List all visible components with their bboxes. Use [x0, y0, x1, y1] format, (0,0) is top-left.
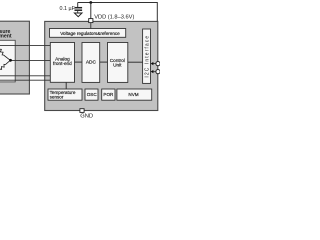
svg-text:I2C Interface: I2C Interface: [145, 35, 151, 78]
svg-text:GND: GND: [80, 113, 93, 119]
pin SDA pad circle: [156, 70, 160, 74]
svg-text:OSC: OSC: [87, 92, 98, 97]
resistor R1 (bridge upper zigzag): [0, 49, 4, 56]
capacitor C1 plate bottom: [75, 9, 83, 11]
svg-text:Voltage regulators&reference: Voltage regulators&reference: [60, 31, 120, 36]
control unit box: [108, 43, 128, 83]
POR box: [102, 89, 115, 100]
wire AFE to temperature sensor: [65, 82, 67, 89]
pin GND square: [80, 109, 84, 113]
wire bridge low2 to AFE: [0, 79, 51, 81]
pin SDA wire: [153, 71, 156, 73]
wire control unit to I2C: [128, 61, 143, 63]
background: [0, 0, 160, 120]
capacitor C1 lead top: [77, 3, 79, 8]
wire VDD pin to regulator: [90, 23, 92, 29]
svg-text:element: element: [0, 33, 12, 39]
wire bridge low1 to AFE: [0, 75, 51, 77]
capacitor C1 plate top: [75, 7, 83, 9]
voltage regulator box: [50, 29, 126, 38]
temperature sensor box: [48, 89, 82, 100]
pin SDA arrowhead: [151, 70, 154, 73]
wire VDD drop to pin: [90, 3, 92, 20]
wire diamond upper side: [4, 55, 11, 60]
chip gray box U1: [45, 21, 158, 110]
analog front-end box: [50, 43, 74, 83]
pin SCL wire: [153, 63, 156, 65]
wire diamond lower side: [5, 60, 10, 64]
svg-text:VDD (1.8–3.6V): VDD (1.8–3.6V): [94, 15, 134, 21]
NVM box: [117, 89, 152, 100]
wire AFE to ADC: [75, 61, 83, 63]
ADC box: [82, 43, 100, 83]
wire bridge top to AFE: [0, 44, 51, 46]
svg-text:sensor: sensor: [50, 95, 64, 100]
node bridge output junction: [9, 59, 12, 62]
I2C interface box: [143, 29, 151, 83]
svg-text:front-end: front-end: [53, 61, 72, 66]
wire bridge mid to AFE: [10, 59, 50, 61]
bridge white box: [0, 40, 15, 82]
svg-text:POR: POR: [103, 92, 114, 97]
pin SCL arrowhead: [151, 62, 154, 65]
svg-text:Unit: Unit: [113, 63, 122, 68]
OSC box: [85, 89, 98, 100]
ground symbol: [74, 13, 82, 17]
wire VDD top rail: [78, 3, 158, 22]
pin SCL pad circle: [156, 62, 160, 66]
pin VDD square: [89, 19, 93, 23]
svg-text:ADC: ADC: [86, 60, 97, 66]
svg-text:0.1 µF: 0.1 µF: [60, 6, 76, 12]
capacitor C1 lead bottom: [77, 11, 79, 13]
wire ADC to control unit: [100, 61, 108, 63]
resistor R2 (bridge lower zigzag): [0, 64, 5, 70]
node VDD junction: [89, 1, 92, 4]
sensor module gray box: [0, 21, 29, 94]
svg-text:NVM: NVM: [128, 92, 138, 97]
